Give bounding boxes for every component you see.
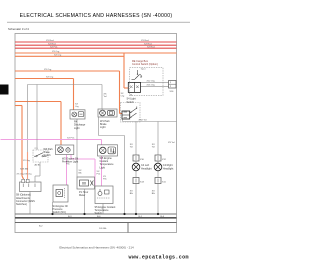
svg-text:Switches): Switches) [16, 203, 27, 206]
svg-text:Blk: Blk [152, 193, 156, 195]
svg-text:ELECTRICAL SCHEMATICS AND HAR: ELECTRICAL SCHEMATICS AND HARNESSES (SN … [20, 13, 173, 19]
svg-text:Pnk: Pnk [103, 179, 108, 181]
svg-text:Switch (NC): Switch (NC) [53, 211, 67, 214]
svg-text:Pnk: Pnk [66, 164, 71, 166]
svg-text:2 1: 2 1 [35, 148, 39, 150]
svg-text:X11: X11 [162, 181, 167, 183]
svg-text:Schematic 3 of 4: Schematic 3 of 4 [8, 27, 29, 31]
svg-text:Org: Org [121, 95, 125, 98]
svg-text:Input: Input [141, 67, 146, 70]
svg-text:Pnk: Pnk [97, 174, 102, 176]
svg-text:Switch: Switch [95, 212, 103, 215]
svg-text:XX Red: XX Red [48, 43, 56, 45]
svg-text:B-2: B-2 [39, 225, 43, 227]
svg-text:XX Red: XX Red [141, 40, 149, 42]
svg-text:Blk: Blk [79, 173, 83, 175]
svg-text:XX Pnk: XX Pnk [50, 46, 58, 48]
svg-text:Meter: Meter [79, 194, 86, 197]
svg-text:Switch: Switch [44, 154, 52, 157]
svg-text:X13: X13 [140, 181, 145, 183]
svg-text:XX Org: XX Org [44, 68, 52, 71]
svg-text:XX Org: XX Org [52, 50, 60, 53]
svg-text:www.epcatalogs.com: www.epcatalogs.com [129, 254, 189, 260]
svg-text:Yel: Yel [104, 96, 107, 98]
svg-text:Headlight: Headlight [163, 167, 174, 170]
svg-text:Blk: Blk [130, 193, 134, 195]
svg-text:Light: Light [74, 127, 80, 130]
svg-text:XX Yel: XX Yel [168, 142, 175, 144]
svg-text:X10: X10 [140, 159, 145, 161]
svg-text:XX Red: XX Red [147, 46, 155, 48]
svg-text:Yel: Yel [130, 147, 133, 149]
svg-text:A2 B1: A2 B1 [35, 163, 42, 166]
svg-text:Light: Light [100, 166, 106, 169]
svg-text:X12 Org: X12 Org [147, 80, 156, 83]
svg-text:XX Red: XX Red [46, 40, 54, 42]
svg-text:Yel: Yel [152, 147, 155, 149]
svg-text:XXX Yel: XXX Yel [139, 120, 147, 122]
svg-text:Electrical Schematics and Har: Electrical Schematics and Harnesses (SN … [59, 246, 134, 250]
svg-text:Headlight: Headlight [141, 167, 152, 170]
svg-text:101 Blk: 101 Blk [99, 228, 107, 230]
svg-text:XXX Blk: XXX Blk [20, 169, 29, 171]
svg-text:Light: Light [100, 126, 106, 129]
svg-text:Control Switch (Option): Control Switch (Option) [132, 63, 158, 66]
svg-text:Switch: Switch [127, 101, 135, 104]
svg-text:XX Org: XX Org [46, 76, 54, 79]
svg-text:X12: X12 [162, 159, 167, 161]
svg-text:XX Org: XX Org [23, 159, 31, 162]
svg-text:XX Red: XX Red [144, 43, 152, 45]
svg-text:XX Org: XX Org [54, 54, 62, 57]
svg-text:X16: X16 [170, 91, 175, 93]
svg-text:Pressure Light: Pressure Light [62, 161, 78, 164]
svg-text:XX Org XX Org: XX Org XX Org [17, 172, 33, 175]
svg-text:Org: Org [75, 105, 79, 108]
svg-text:X15 Org: X15 Org [147, 84, 156, 87]
svg-text:00: 00 [82, 182, 86, 186]
